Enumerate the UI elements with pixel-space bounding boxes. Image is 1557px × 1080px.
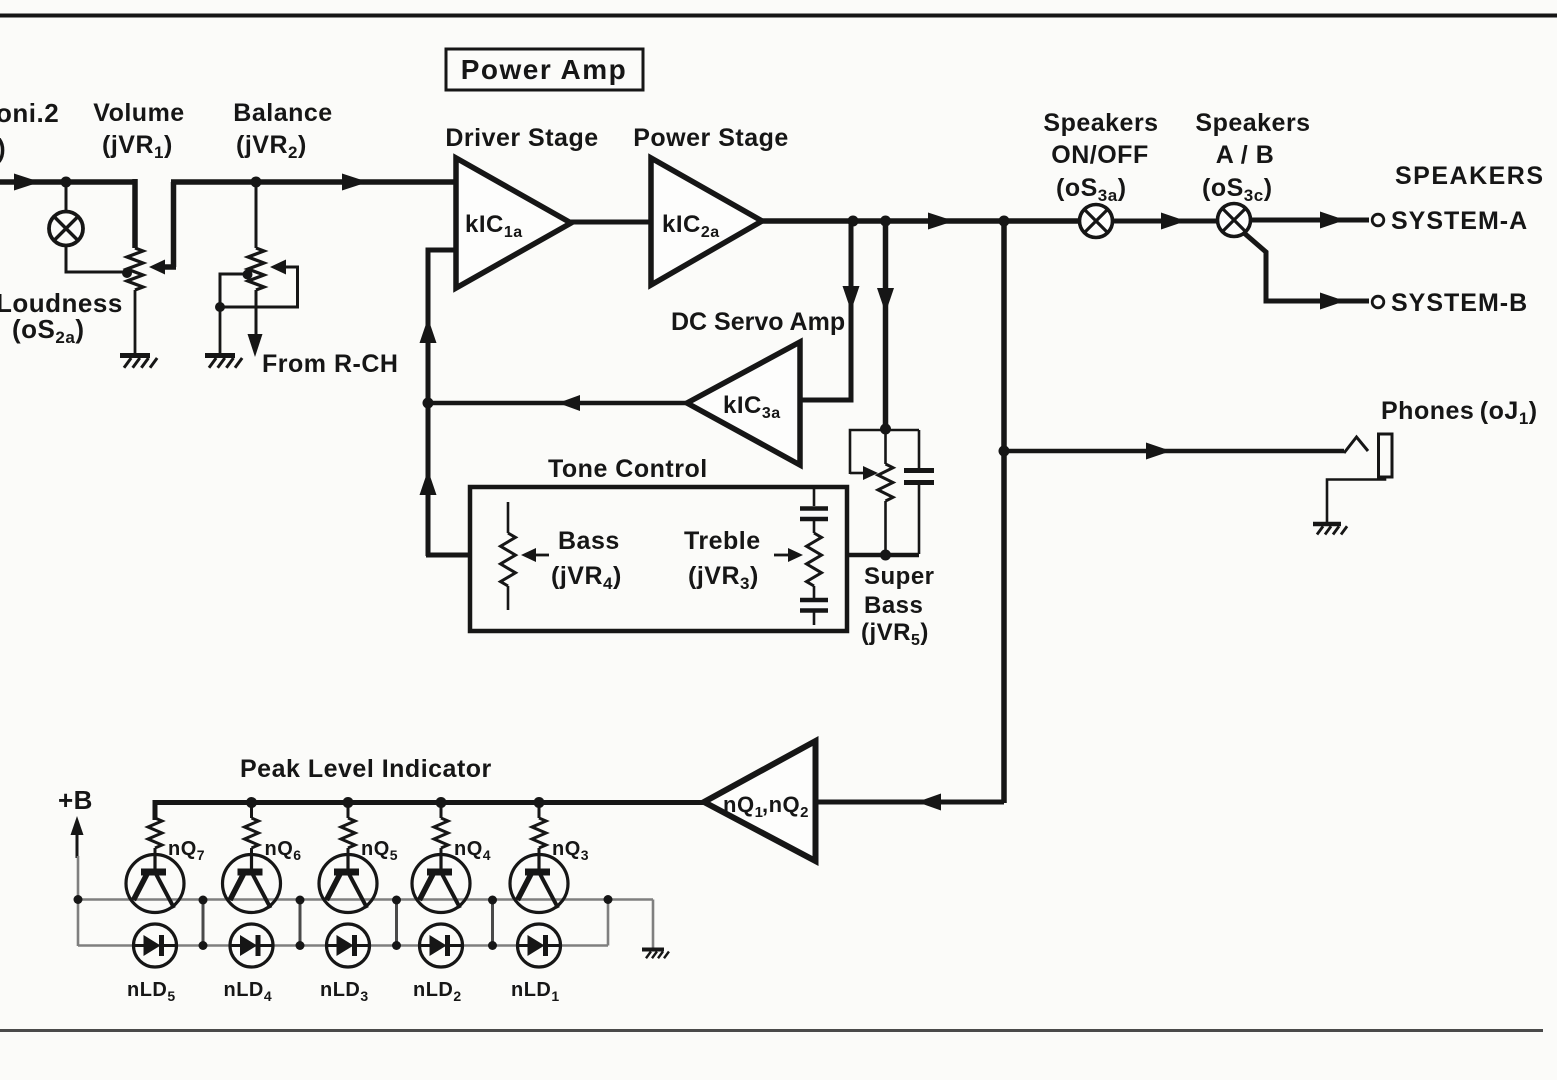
- transistor pair nQ1 nQ2 buffer: [704, 741, 816, 861]
- terminal SYSTEM-A: [1372, 214, 1384, 226]
- node balance tap junction: [243, 270, 253, 280]
- svg-text:Super: Super: [864, 563, 935, 590]
- op-amp kIC3a DC Servo Amp: [687, 342, 800, 465]
- wire output down long: [1001, 221, 1007, 803]
- label SYSTEM-B: [1391, 289, 1528, 317]
- svg-text:+B: +B: [58, 785, 93, 815]
- wire collector supply bus: [155, 803, 704, 821]
- svg-text:Tone Control: Tone Control: [548, 455, 708, 483]
- node super bass bottom junction: [880, 550, 891, 561]
- wire main output arrow: [928, 213, 954, 230]
- resistor nQ6 base resistor: [245, 803, 259, 856]
- wire feedback to tone box: [426, 553, 470, 558]
- label SYSTEM-A: [1391, 207, 1528, 235]
- svg-text:SYSTEM-A: SYSTEM-A: [1391, 207, 1528, 235]
- label Driver Stage: [445, 124, 598, 152]
- label Peak Level Indicator: [240, 755, 492, 783]
- potentiometer jVR3 wiper arrow: [774, 548, 803, 562]
- label nLD1: [511, 979, 560, 1004]
- svg-text:): ): [0, 133, 6, 163]
- label nQ4: [454, 838, 491, 863]
- wire system A arrow: [1320, 212, 1345, 229]
- resistor nQ3 base resistor: [532, 803, 546, 856]
- wire input arrow: [14, 174, 40, 191]
- label nQ7: [168, 838, 205, 863]
- potentiometer jVR4 wiper arrow: [521, 548, 549, 562]
- transistor nQ7: [126, 855, 184, 913]
- wire balance loop to ground: [219, 307, 222, 353]
- label nQ5: [361, 838, 398, 863]
- wire volume pot to ground: [134, 290, 137, 353]
- label Volume (jVR1): [93, 99, 184, 162]
- potentiometer jVR2 wiper arrow: [270, 260, 299, 275]
- potentiometer jVR1 Volume top lead: [132, 179, 138, 248]
- label Balance (jVR2): [233, 99, 332, 162]
- op-amp kIC1a Driver Stage: [456, 158, 571, 288]
- op-amp kIC2a Power Stage: [651, 158, 762, 285]
- node output junction B: [880, 216, 891, 227]
- wire main input segment: [0, 179, 137, 185]
- node loudness tap junction: [122, 268, 132, 278]
- box Tone Control: [470, 487, 847, 631]
- wire main output: [760, 218, 1081, 224]
- label nQ6: [265, 838, 302, 863]
- resistor nQ4 base resistor: [434, 803, 448, 856]
- border bottom rule: [0, 1029, 1543, 1032]
- transistor nQ5: [319, 855, 377, 913]
- svg-text:oni.2: oni.2: [0, 98, 59, 128]
- wire balance pot From R-CH: [248, 290, 263, 357]
- wire servo drop arrow: [843, 286, 860, 311]
- wire emitter bus: [78, 898, 653, 901]
- node supply bus tap 1: [246, 797, 257, 808]
- led nLD3: [327, 924, 370, 967]
- node input junction: [61, 177, 72, 188]
- wire +B to emitter bus: [77, 856, 80, 946]
- label nLD5: [127, 979, 176, 1004]
- svg-text:ON/OFF: ON/OFF: [1051, 141, 1148, 169]
- wire stage link 3: [392, 896, 401, 951]
- wire driver to power: [569, 220, 653, 225]
- wire super bass drop: [883, 219, 889, 428]
- terminal SYSTEM-B: [1372, 296, 1384, 308]
- wire led bus: [78, 944, 608, 947]
- svg-text:Speakers: Speakers: [1043, 109, 1158, 137]
- jack oJ1 tip contact: [1344, 437, 1368, 453]
- potentiometer jVR2 Balance body: [248, 248, 264, 290]
- svg-text:SYSTEM-B: SYSTEM-B: [1391, 289, 1528, 317]
- wire oS3c to system B: [1244, 233, 1370, 302]
- svg-text:A / B: A / B: [1216, 141, 1275, 169]
- potentiometer jVR5 Super Bass lead: [884, 430, 887, 464]
- node phones junction: [999, 446, 1010, 457]
- svg-text:Speakers: Speakers: [1195, 109, 1310, 137]
- label Speakers ON/OFF (oS3a): [1043, 109, 1158, 205]
- potentiometer jVR2 Balance top lead: [255, 182, 258, 248]
- wire super bass drop arrow: [877, 288, 894, 313]
- switch oS3a Speakers ON/OFF: [1080, 205, 1113, 238]
- wire super bass bottom bus: [845, 553, 919, 558]
- node super bass top junction: [880, 424, 891, 435]
- transistor nQ3: [510, 855, 568, 913]
- transistor nQ6: [223, 855, 281, 913]
- node supply bus tap 2: [343, 797, 354, 808]
- label SPEAKERS: [1395, 162, 1545, 190]
- node emitter bus left junction: [74, 895, 83, 904]
- label nQ3: [552, 838, 589, 863]
- node supply bus tap 3: [436, 797, 447, 808]
- svg-text:Volume: Volume: [93, 99, 184, 127]
- ground phones: [1313, 524, 1347, 535]
- resistor nQ5 base resistor: [341, 803, 355, 856]
- label Treble (jVR3): [684, 527, 761, 593]
- svg-text:Driver Stage: Driver Stage: [445, 124, 598, 152]
- label +B: [58, 785, 93, 815]
- led nLD1: [518, 924, 561, 967]
- ground peak indicator: [642, 950, 669, 959]
- ground balance: [205, 356, 242, 368]
- svg-text:Peak Level Indicator: Peak Level Indicator: [240, 755, 492, 783]
- node Moni.2 input label: [0, 98, 59, 163]
- potentiometer jVR4 Bass body: [501, 533, 516, 586]
- wire servo output arrow: [558, 395, 580, 411]
- svg-text:Bass: Bass: [864, 592, 923, 619]
- label From R-CH: [262, 350, 398, 378]
- node output junction A: [848, 216, 859, 227]
- wire main segment 2: [171, 179, 458, 185]
- potentiometer jVR5 wiper arrow: [850, 466, 878, 480]
- node balance junction: [251, 177, 262, 188]
- svg-text:Power Amp: Power Amp: [461, 54, 628, 85]
- wire led bus riser: [604, 895, 613, 946]
- wire system B arrow: [1320, 293, 1345, 310]
- wire phones arrow: [1146, 443, 1171, 460]
- node feedback junction: [423, 398, 434, 409]
- wire oS3a to oS3c: [1113, 219, 1219, 224]
- svg-text:SPEAKERS: SPEAKERS: [1395, 162, 1545, 190]
- wire feedback arrow lower: [420, 470, 437, 495]
- potentiometer jVR5 Super Bass body: [878, 464, 893, 501]
- label Speakers A/B (oS3c): [1195, 109, 1310, 205]
- border top rule: [0, 14, 1557, 18]
- jack oJ1 plug body: [1379, 434, 1393, 477]
- led nLD5: [134, 924, 177, 967]
- transistor nQ4: [412, 855, 470, 913]
- svg-text:DC Servo Amp: DC Servo Amp: [671, 308, 845, 336]
- potentiometer jVR3 Treble body: [807, 533, 822, 586]
- lamp oS2a Loudness switch: [49, 212, 83, 246]
- wire phones feed: [1004, 449, 1344, 454]
- wire feedback to driver: [428, 250, 458, 556]
- label Super Bass (jVR5): [861, 563, 935, 649]
- label nLD2: [413, 979, 462, 1004]
- potentiometer jVR1 wiper arrow: [149, 260, 176, 275]
- wire peak indicator feed: [813, 800, 1004, 805]
- label DC Servo Amp: [671, 308, 845, 336]
- node balance loop junction: [215, 302, 225, 312]
- ground volume: [120, 356, 157, 368]
- wire lamp oS2a to volume tap: [66, 246, 125, 273]
- power +B arrow: [71, 816, 84, 858]
- wire oS3a arrow: [1161, 213, 1186, 230]
- wire feedback arrow upper: [420, 318, 437, 343]
- capacitor super bass: [904, 430, 934, 554]
- wire main arrow 2: [342, 174, 368, 191]
- capacitor treble bottom: [800, 586, 828, 625]
- wire stage link 1: [199, 896, 208, 951]
- potentiometer jVR1 Volume body: [127, 248, 143, 290]
- potentiometer jVR4 Bass lead top: [507, 502, 510, 533]
- node output junction C: [999, 216, 1010, 227]
- svg-text:From R-CH: From R-CH: [262, 350, 398, 378]
- wire servo input drop: [800, 219, 851, 400]
- wire balance loop to tap: [220, 274, 246, 306]
- node supply bus tap 4: [534, 797, 545, 808]
- svg-text:Phones (oJ1): Phones (oJ1): [1381, 397, 1538, 428]
- svg-text:Power Stage: Power Stage: [633, 124, 789, 152]
- resistor nQ7 base resistor: [148, 803, 162, 856]
- wire peak feed arrow: [917, 794, 941, 811]
- svg-text:Treble: Treble: [684, 527, 761, 555]
- switch oS3c Speakers A/B: [1218, 204, 1251, 237]
- wire balance wiper loop: [220, 267, 298, 307]
- wire oS3c to system A: [1251, 218, 1370, 223]
- svg-text:Balance: Balance: [233, 99, 332, 127]
- wire volume wiper up: [171, 182, 177, 267]
- wire jack sleeve to ground: [1327, 477, 1385, 522]
- potentiometer jVR4 Bass lead bottom: [507, 586, 510, 610]
- label nLD4: [224, 979, 273, 1004]
- led nLD2: [420, 924, 463, 967]
- label nLD3: [320, 979, 369, 1004]
- label Power Amp box: [446, 49, 643, 90]
- wire servo output: [426, 401, 689, 406]
- wire super bass frame top: [850, 430, 919, 474]
- label Power Stage: [633, 124, 789, 152]
- capacitor treble top: [800, 489, 828, 533]
- potentiometer jVR5 lead bottom: [884, 501, 887, 554]
- wire stage link 4: [488, 896, 497, 951]
- label Phones (oJ1): [1381, 397, 1538, 428]
- label Bass (jVR4): [551, 527, 622, 593]
- svg-text:Bass: Bass: [558, 527, 620, 555]
- label Loudness (oS2a): [0, 288, 123, 347]
- led nLD4: [230, 924, 273, 967]
- wire stage link 2: [296, 896, 305, 951]
- wire emitter bus to ground: [652, 900, 655, 949]
- label Tone Control: [548, 455, 708, 483]
- lamp oS2a lead top: [65, 182, 68, 212]
